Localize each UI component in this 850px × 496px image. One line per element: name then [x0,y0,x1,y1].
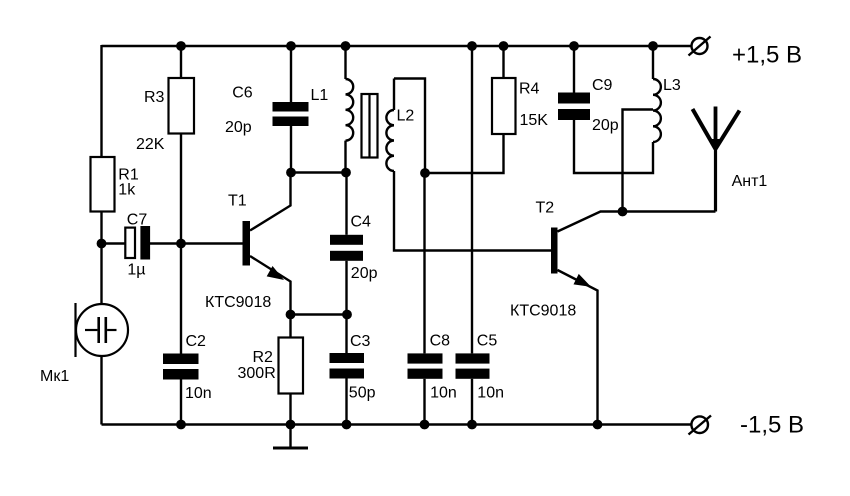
svg-text:C6: C6 [232,85,253,102]
wire rail to C6 [290,46,292,102]
svg-text:C5: C5 [477,333,498,350]
wire emitter node to C4 node [291,313,348,315]
junction C8 bottom rail [420,420,430,430]
transistor T2 [551,228,590,287]
svg-text:L3: L3 [663,77,681,94]
junction R3 top rail [176,41,186,51]
wire T2 collector [558,212,716,232]
resistor R2 [279,338,304,394]
svg-text:C8: C8 [430,333,451,350]
resistor R1 [91,157,115,212]
svg-text:20p: 20p [351,265,378,282]
svg-text:10n: 10n [430,385,457,402]
capacitor C5 [456,353,490,378]
junction L1 bottom node [341,168,351,178]
svg-text:L2: L2 [397,108,415,125]
wire rail to C9 [573,46,575,93]
wire node down to C8 [423,173,425,353]
svg-text:C9: C9 [592,77,613,94]
wire rail to L1 top [344,46,346,79]
svg-text:22K: 22K [136,136,165,153]
wire L2 top side [394,79,425,174]
junction R2 bottom rail [286,420,296,430]
svg-text:КТС9018: КТС9018 [205,294,271,311]
svg-text:КТС9018: КТС9018 [510,303,576,320]
wire T1 collector [250,173,291,231]
wire emitter node to R2 [289,315,291,338]
junction R4 top rail [499,41,509,51]
wire rail to ground [289,425,291,449]
svg-text:-1,5 В: -1,5 В [740,412,804,439]
svg-text:L1: L1 [311,87,329,104]
wire microphone to bottom rail [100,356,102,425]
junction C5 bottom rail [467,420,477,430]
junction T2 emitter bottom rail [593,420,603,430]
wire rail to R3 top [180,46,182,78]
svg-text:T2: T2 [536,199,555,216]
wire rail down to C5 [471,46,473,353]
wire C6 to collector node [290,126,292,173]
wire node to R4 bottom [425,134,504,173]
wire L2 axis top [393,79,395,111]
wire collector node to L1 node [291,171,347,173]
wire C2 to bottom rail [180,380,182,425]
wire C3 to bottom rail [345,379,347,425]
svg-text:20p: 20p [225,119,252,136]
wire C9 bottom [574,120,653,173]
wire C5 to bottom rail [471,379,473,425]
wire R1 bottom to base node [100,212,102,244]
capacitor C8 [408,353,443,378]
svg-text:50p: 50p [349,385,376,402]
svg-text:T1: T1 [228,193,247,210]
wire C7 to T1 base [150,242,243,244]
svg-text:C4: C4 [351,214,372,231]
transistor T1 [243,221,283,279]
wire top supply rail [102,45,692,47]
svg-text:+1,5 В: +1,5 В [732,42,802,69]
junction T1 emitter node [286,310,296,320]
wire base node to C7 [102,242,126,244]
capacitor C4 [330,235,363,261]
capacitor C6 [273,102,309,126]
svg-text:C3: C3 [350,333,371,350]
svg-text:20p: 20p [592,117,619,134]
svg-text:C7: C7 [127,212,148,229]
capacitor C3 [330,353,365,379]
wire L1 node down to C4 [345,173,347,235]
capacitor C7 polarized [125,226,150,260]
wire T1 emitter [250,256,291,315]
svg-text:10n: 10n [477,385,504,402]
wire L2 bottom to T2 base [394,171,551,251]
resistor R3 [169,78,195,134]
junction R1 base node [97,239,107,249]
junction L1 top rail [341,41,351,51]
inductor L2 [386,110,394,171]
svg-text:R2: R2 [253,349,274,366]
transformer core [362,94,378,158]
junction L2 R4 C8 node [420,168,430,178]
wire L1 bottom to node [344,141,346,173]
wire C8 to bottom rail [423,379,425,425]
ground [273,447,308,450]
svg-text:10n: 10n [185,385,212,402]
junction T1 collector node [286,168,296,178]
junction R3 base node [176,239,186,249]
wire base node down to C2 [180,244,182,354]
svg-text:Ант1: Ант1 [732,173,768,190]
svg-text:300R: 300R [238,365,276,382]
inductor L1 [346,79,354,141]
terminal +1,5V [689,37,711,56]
resistor R4 [492,78,516,134]
wire R4 top to rail [502,46,504,78]
junction L3 top rail [648,41,658,51]
wire C4 to C3 node [345,261,347,315]
antenna Ant1 [693,107,740,212]
wire L3 tap to T2 collector node [623,110,654,212]
wire C3 node to C3 [345,315,347,354]
wire left branch from rail to R1 [100,45,102,157]
wire R2 bottom to rail [289,394,291,425]
junction C3 bottom rail [342,420,352,430]
wire rail to L3 [652,46,654,79]
svg-text:C2: C2 [186,333,207,350]
junction T2 collector node [618,207,628,217]
svg-text:1k: 1k [118,182,136,199]
junction C9 top rail [569,41,579,51]
svg-text:R3: R3 [144,89,165,106]
junction C5 top rail [467,41,477,51]
junction C6 top rail [286,41,296,51]
inductor L3 [653,79,661,142]
svg-text:Мк1: Мк1 [40,368,69,385]
junction C4 C3 node [342,310,352,320]
microphone Mk1 [76,303,129,357]
capacitor C9 [558,93,590,121]
svg-text:R4: R4 [519,81,540,98]
terminal -1,5V [689,416,712,435]
wire bottom supply rail [102,423,692,425]
svg-text:1µ: 1µ [127,262,145,279]
junction C2 bottom rail [176,420,186,430]
wire base node down to microphone [100,244,102,305]
capacitor C2 [163,354,199,380]
wire R3 bottom to base wire [180,134,182,244]
svg-text:15K: 15K [520,112,549,129]
wire T2 emitter [558,270,598,425]
